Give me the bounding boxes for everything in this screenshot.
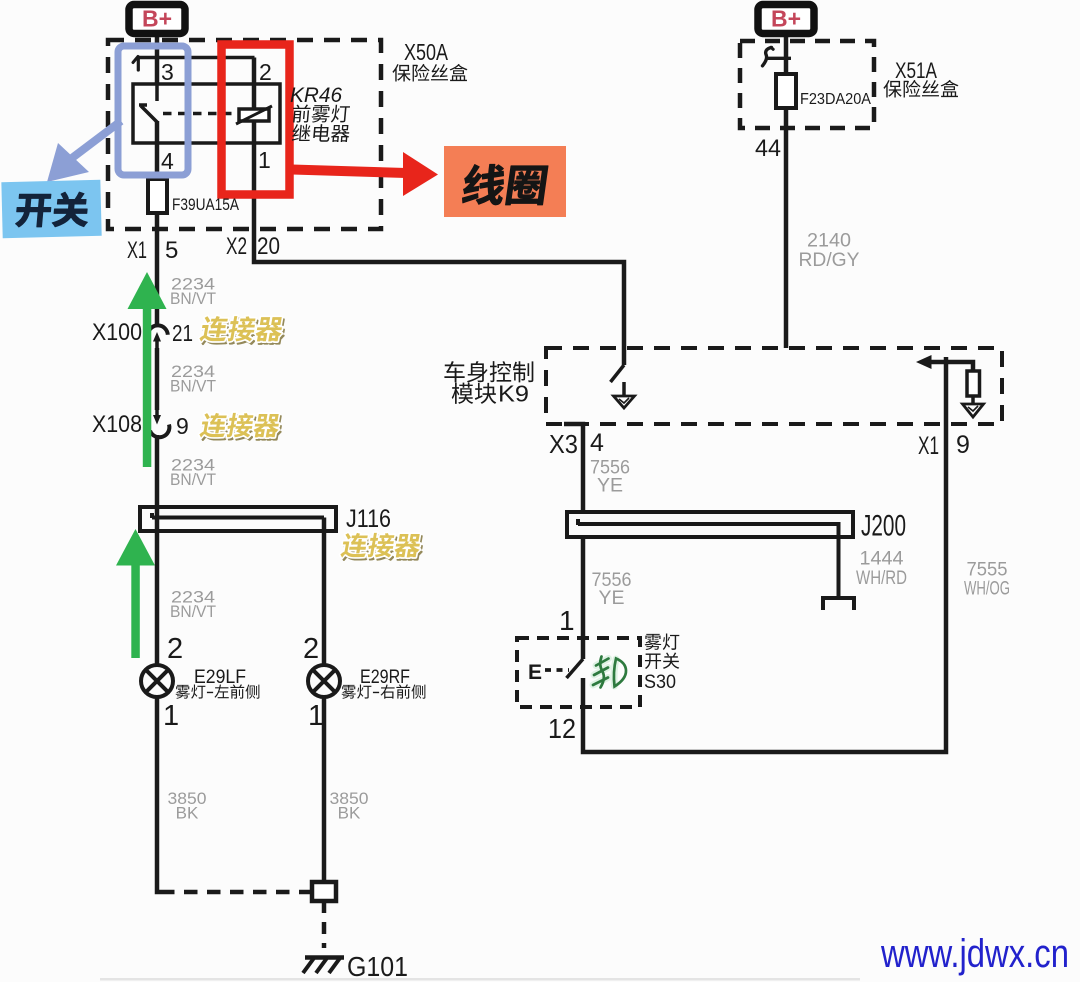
svg-text:B+: B+ [142, 6, 172, 32]
svg-text:3: 3 [161, 59, 174, 85]
svg-text:1: 1 [258, 147, 271, 173]
svg-text:4: 4 [590, 429, 604, 457]
svg-text:5: 5 [165, 237, 178, 264]
svg-text:K9: K9 [498, 381, 529, 407]
svg-text:YE: YE [597, 475, 623, 497]
svg-text:E: E [528, 661, 542, 684]
svg-text:E29LF: E29LF [194, 667, 246, 688]
svg-text:4: 4 [161, 148, 174, 174]
svg-text:9: 9 [956, 431, 970, 459]
svg-text:BN/VT: BN/VT [170, 289, 216, 308]
svg-text:44: 44 [755, 135, 781, 162]
svg-text:X1: X1 [918, 432, 939, 460]
svg-text:WH/RD: WH/RD [856, 567, 907, 589]
svg-text:KR46: KR46 [290, 84, 342, 107]
svg-text:1: 1 [308, 700, 324, 732]
svg-text:12: 12 [548, 713, 576, 744]
svg-text:BN/VT: BN/VT [170, 377, 216, 396]
svg-text:F23DA20A: F23DA20A [800, 91, 872, 108]
svg-text:X3: X3 [549, 429, 578, 459]
svg-text:E29RF: E29RF [360, 667, 410, 688]
svg-text:2: 2 [167, 633, 183, 665]
svg-text:S30: S30 [644, 672, 676, 693]
svg-text:YE: YE [598, 587, 624, 609]
svg-text:2: 2 [303, 633, 319, 665]
svg-text:X1: X1 [127, 237, 147, 264]
svg-text:J116: J116 [346, 505, 391, 533]
svg-text:F39UA15A: F39UA15A [172, 195, 240, 214]
svg-text:20: 20 [257, 233, 280, 260]
svg-text:2: 2 [259, 59, 272, 85]
svg-text:WH/OG: WH/OG [964, 578, 1010, 600]
svg-text:X51A: X51A [895, 58, 937, 83]
svg-text:X2: X2 [226, 233, 247, 260]
svg-text:www.jdwx.cn: www.jdwx.cn [880, 932, 1069, 976]
svg-text:21: 21 [172, 320, 193, 346]
svg-text:RD/GY: RD/GY [799, 249, 860, 271]
svg-text:1: 1 [559, 605, 575, 636]
svg-text:B+: B+ [771, 6, 801, 32]
svg-text:BK: BK [338, 804, 361, 823]
svg-text:X50A: X50A [404, 39, 449, 65]
svg-text:J200: J200 [861, 510, 906, 543]
svg-text:BK: BK [176, 804, 199, 823]
svg-text:X108: X108 [92, 411, 142, 438]
svg-text:1: 1 [163, 700, 179, 732]
svg-text:BN/VT: BN/VT [170, 602, 216, 621]
svg-text:BN/VT: BN/VT [170, 470, 216, 489]
svg-text:G101: G101 [347, 951, 408, 982]
svg-text:X100: X100 [92, 319, 142, 346]
svg-text:9: 9 [176, 413, 189, 439]
